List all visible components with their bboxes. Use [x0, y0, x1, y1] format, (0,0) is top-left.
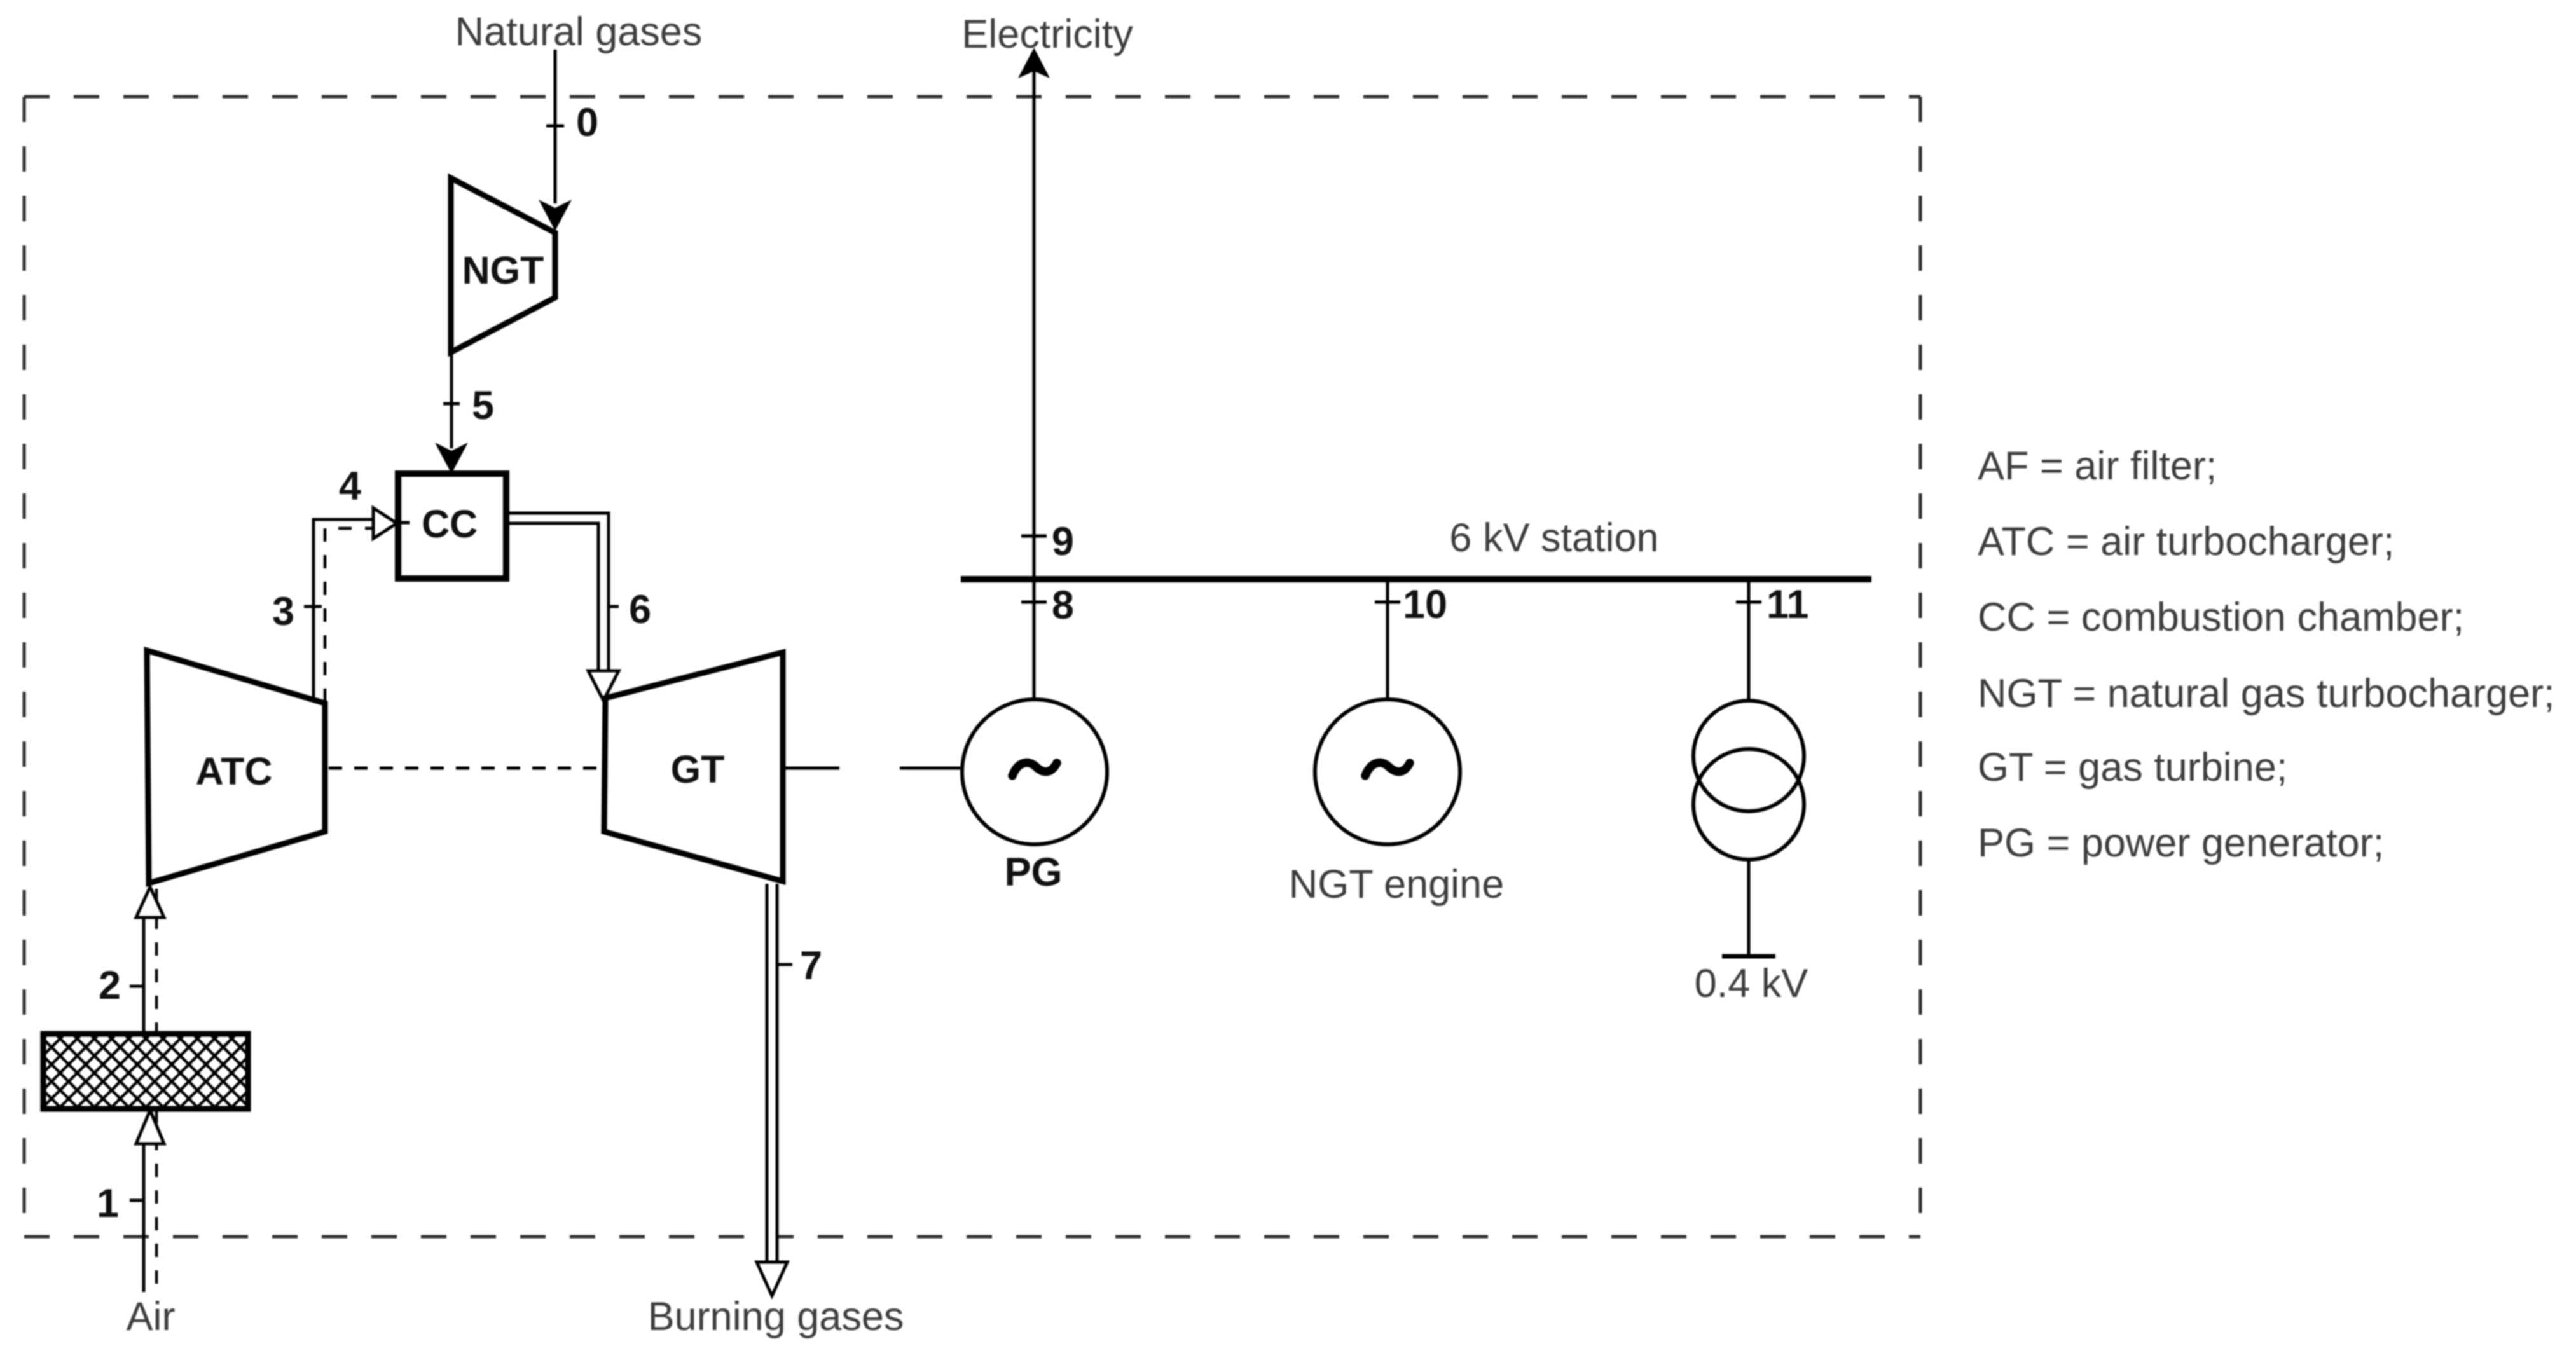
wire stream 6: CC to GT (double line) — [509, 518, 603, 673]
svg-text:Air: Air — [127, 1295, 176, 1339]
system boundary right edge (dashed) — [1919, 97, 1922, 1237]
open arrowhead burning gases — [757, 1262, 787, 1296]
air filter AF (crosshatched) — [43, 1034, 248, 1109]
svg-text:NGT = natural gas turbocharger: NGT = natural gas turbocharger; — [1978, 671, 2555, 716]
gas turbine GT — [604, 652, 783, 881]
system boundary left edge (dashed) — [23, 97, 26, 1237]
svg-text:CC = combustion chamber;: CC = combustion chamber; — [1978, 595, 2464, 640]
system boundary top edge (dashed) — [24, 95, 1920, 99]
air turbocharger ATC — [147, 650, 325, 883]
wire stream 5: NGT to CC — [450, 352, 453, 448]
turbocharger NGT — [451, 178, 555, 352]
svg-text:4: 4 — [339, 464, 361, 509]
wire transformer to bus — [1747, 582, 1751, 701]
svg-text:6: 6 — [629, 587, 651, 632]
node 6 tick — [609, 605, 619, 608]
svg-text:5: 5 — [472, 383, 494, 428]
svg-text:ATC = air turbocharger;: ATC = air turbocharger; — [1978, 519, 2394, 564]
arrowhead into NGT — [539, 200, 572, 231]
node 9 tick — [1021, 535, 1047, 538]
svg-text:0: 0 — [576, 100, 598, 145]
node 8 tick — [1021, 601, 1047, 604]
wire transformer to 0.4 kV — [1747, 860, 1751, 956]
open arrowhead into filter — [136, 1110, 164, 1144]
wire air line filter to ATC (dashed) — [155, 889, 158, 1033]
svg-text:8: 8 — [1052, 583, 1074, 628]
wire air line filter to ATC (solid) — [142, 917, 146, 1033]
node tick at CC inlet — [394, 521, 410, 525]
node 3 tick — [304, 605, 322, 608]
wire air inlet (dashed) — [155, 1110, 158, 1292]
svg-text:7: 7 — [800, 944, 822, 988]
wire stream 7: GT exhaust (double line) — [766, 884, 779, 1263]
wire electricity output line — [1033, 70, 1036, 697]
svg-text:3: 3 — [272, 589, 294, 634]
svg-text:1: 1 — [97, 1181, 119, 1226]
open arrowhead into ATC — [136, 887, 164, 917]
node 7 tick — [777, 963, 792, 966]
svg-text:ATC: ATC — [196, 750, 273, 793]
transformer T1 lower winding — [1693, 749, 1804, 860]
node 10 tick — [1375, 601, 1400, 604]
wire air inlet (solid) — [142, 1144, 146, 1292]
system boundary bottom edge (dashed) — [24, 1235, 1920, 1239]
shaft GT-PG segment 2 — [900, 767, 960, 770]
svg-text:Burning gases: Burning gases — [648, 1295, 904, 1339]
node 1 tick — [130, 1199, 144, 1202]
node 2 tick — [130, 985, 144, 988]
svg-text:PG = power generator;: PG = power generator; — [1978, 821, 2384, 865]
open arrowhead into CC left — [373, 508, 397, 539]
wire stream 3-4: air from ATC to CC (solid) — [313, 519, 375, 698]
svg-text:0.4 kV: 0.4 kV — [1695, 961, 1808, 1006]
NGT engine generator — [1315, 699, 1460, 844]
arrowhead into CC — [435, 443, 468, 474]
transformer T1 upper winding — [1693, 701, 1804, 811]
wire stream 3-4 dashed companion — [325, 528, 373, 702]
svg-text:Electricity: Electricity — [961, 12, 1133, 57]
wire stream 0: natural gas inlet line — [554, 50, 557, 203]
svg-text:Natural gases: Natural gases — [455, 10, 703, 54]
node 5 tick — [443, 402, 460, 406]
svg-text:NGT: NGT — [462, 249, 544, 292]
svg-text:9: 9 — [1052, 519, 1074, 564]
shaft GT-PG segment 1 — [785, 767, 839, 770]
0.4 kV terminal bar — [1722, 954, 1775, 959]
wire NGT engine to bus — [1386, 582, 1389, 699]
bus bar 6 kV station — [961, 576, 1871, 582]
power generator PG — [962, 699, 1107, 895]
svg-text:10: 10 — [1403, 582, 1447, 627]
svg-text:2: 2 — [99, 963, 121, 1008]
open arrowhead into GT — [588, 671, 619, 701]
svg-text:GT: GT — [671, 748, 725, 791]
node 11 tick — [1736, 601, 1761, 604]
svg-text:NGT engine: NGT engine — [1289, 862, 1505, 907]
svg-text:11: 11 — [1767, 582, 1809, 627]
svg-text:6 kV station: 6 kV station — [1449, 516, 1658, 560]
svg-text:CC: CC — [422, 502, 478, 546]
svg-text:AF = air filter;: AF = air filter; — [1978, 444, 2217, 488]
shaft ATC-GT (dashed) — [329, 767, 602, 770]
svg-text:PG: PG — [1004, 850, 1062, 895]
node 0 tick — [546, 125, 564, 128]
svg-text:GT = gas turbine;: GT = gas turbine; — [1978, 745, 2287, 790]
arrowhead electricity (up) — [1018, 48, 1050, 78]
combustion chamber CC — [398, 474, 506, 579]
